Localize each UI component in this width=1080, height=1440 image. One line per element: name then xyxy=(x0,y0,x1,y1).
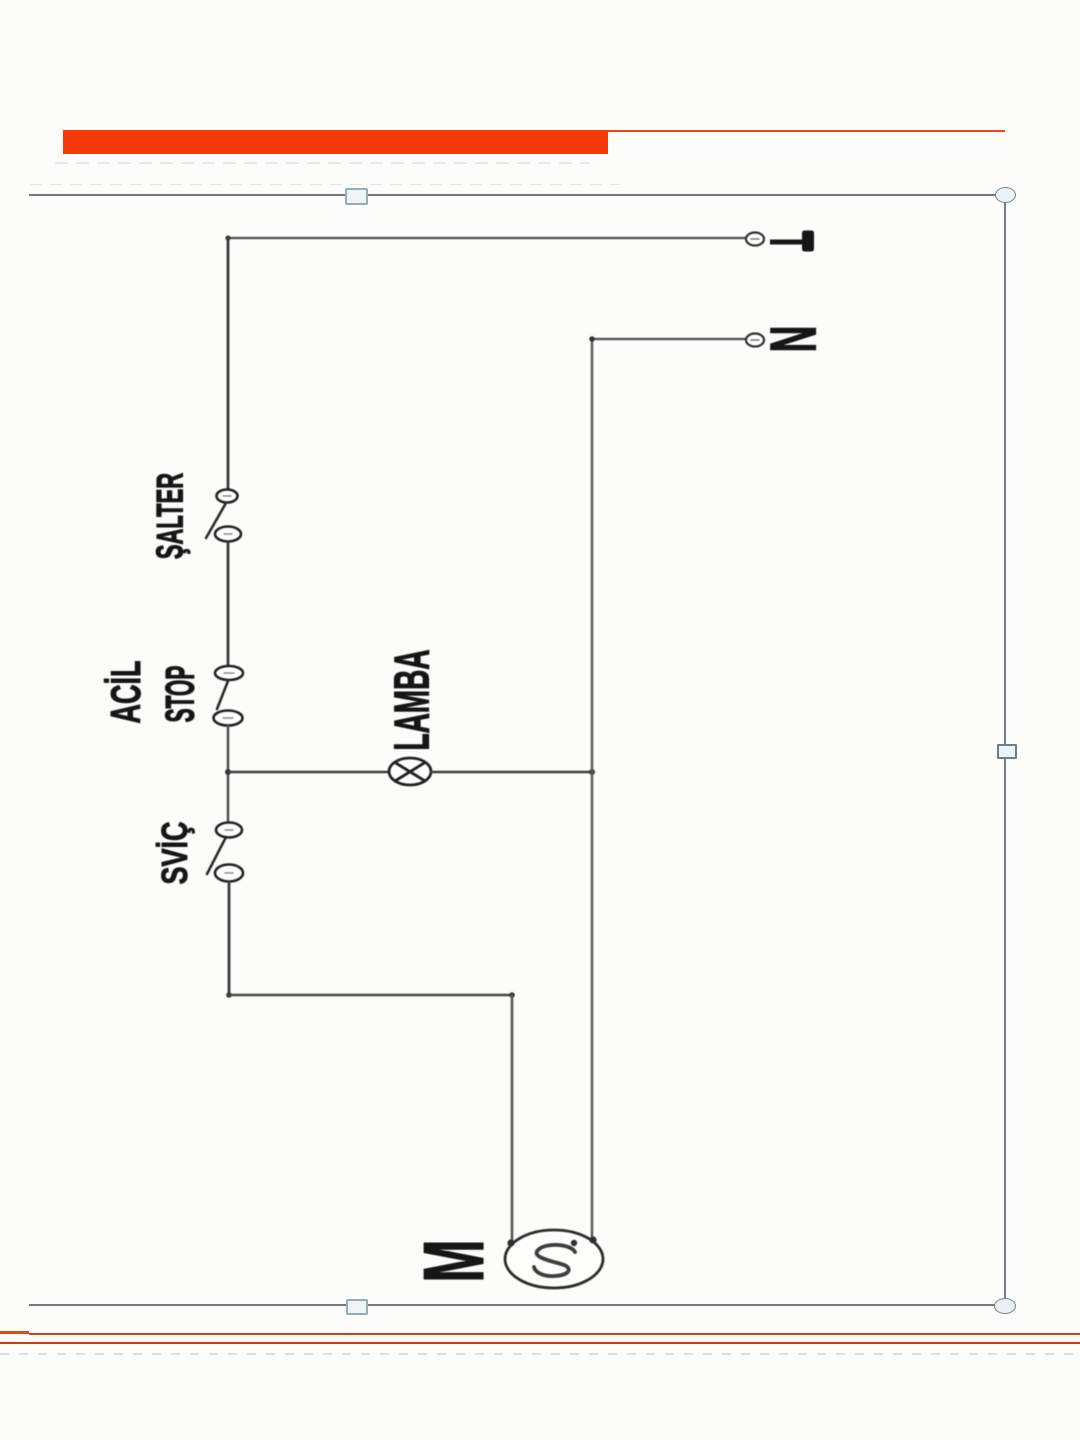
wire: phase vertical upper segment xyxy=(227,238,230,490)
wire: phase vertical below SVIC xyxy=(228,882,231,995)
wire: lamp branch horizontal right xyxy=(431,771,592,773)
switch SALTER (main switch) xyxy=(206,490,241,542)
wire: lamp branch horizontal left xyxy=(228,771,390,773)
svg-text:LAMBA: LAMBA xyxy=(386,649,440,750)
bottom red rules xyxy=(0,1331,29,1334)
svg-text:ŞALTER: ŞALTER xyxy=(148,473,191,559)
svg-text:ACİL: ACİL xyxy=(103,661,149,724)
red header bar xyxy=(63,130,608,154)
motor M xyxy=(505,1230,603,1288)
svg-text:SVİÇ: SVİÇ xyxy=(154,821,195,884)
switch ACIL STOP (emergency stop) xyxy=(214,666,244,726)
wire: neutral horizontal N feed xyxy=(592,338,746,340)
lamp LAMBA symbol xyxy=(389,758,431,785)
svg-text:STOP: STOP xyxy=(157,666,202,723)
terminal N xyxy=(746,334,764,347)
node: corner junction top of phase line xyxy=(225,235,230,240)
switch SVIC xyxy=(207,823,243,882)
selection frame xyxy=(29,194,1006,196)
node: junction of lamp branch with phase line xyxy=(225,769,231,775)
node: corner of motor branch xyxy=(509,992,515,998)
svg-text:N: N xyxy=(758,326,830,353)
node: junction of lamp branch with neutral line xyxy=(589,769,595,775)
wire: bottom horizontal to motor branch xyxy=(229,994,512,996)
wire: motor branch vertical xyxy=(511,995,514,1244)
node: corner at bottom of phase line xyxy=(226,992,232,998)
wire: phase vertical between SALTER and ACIL STOP xyxy=(227,542,230,665)
label T xyxy=(770,231,814,252)
terminal T xyxy=(746,233,764,246)
wire: phase vertical between ACIL STOP and SVIC xyxy=(227,726,229,821)
wire: neutral vertical down to motor xyxy=(591,339,594,1241)
wire: phase top horizontal T feed xyxy=(228,237,746,239)
svg-text:M: M xyxy=(407,1239,503,1282)
node: corner junction of neutral line xyxy=(589,336,595,342)
